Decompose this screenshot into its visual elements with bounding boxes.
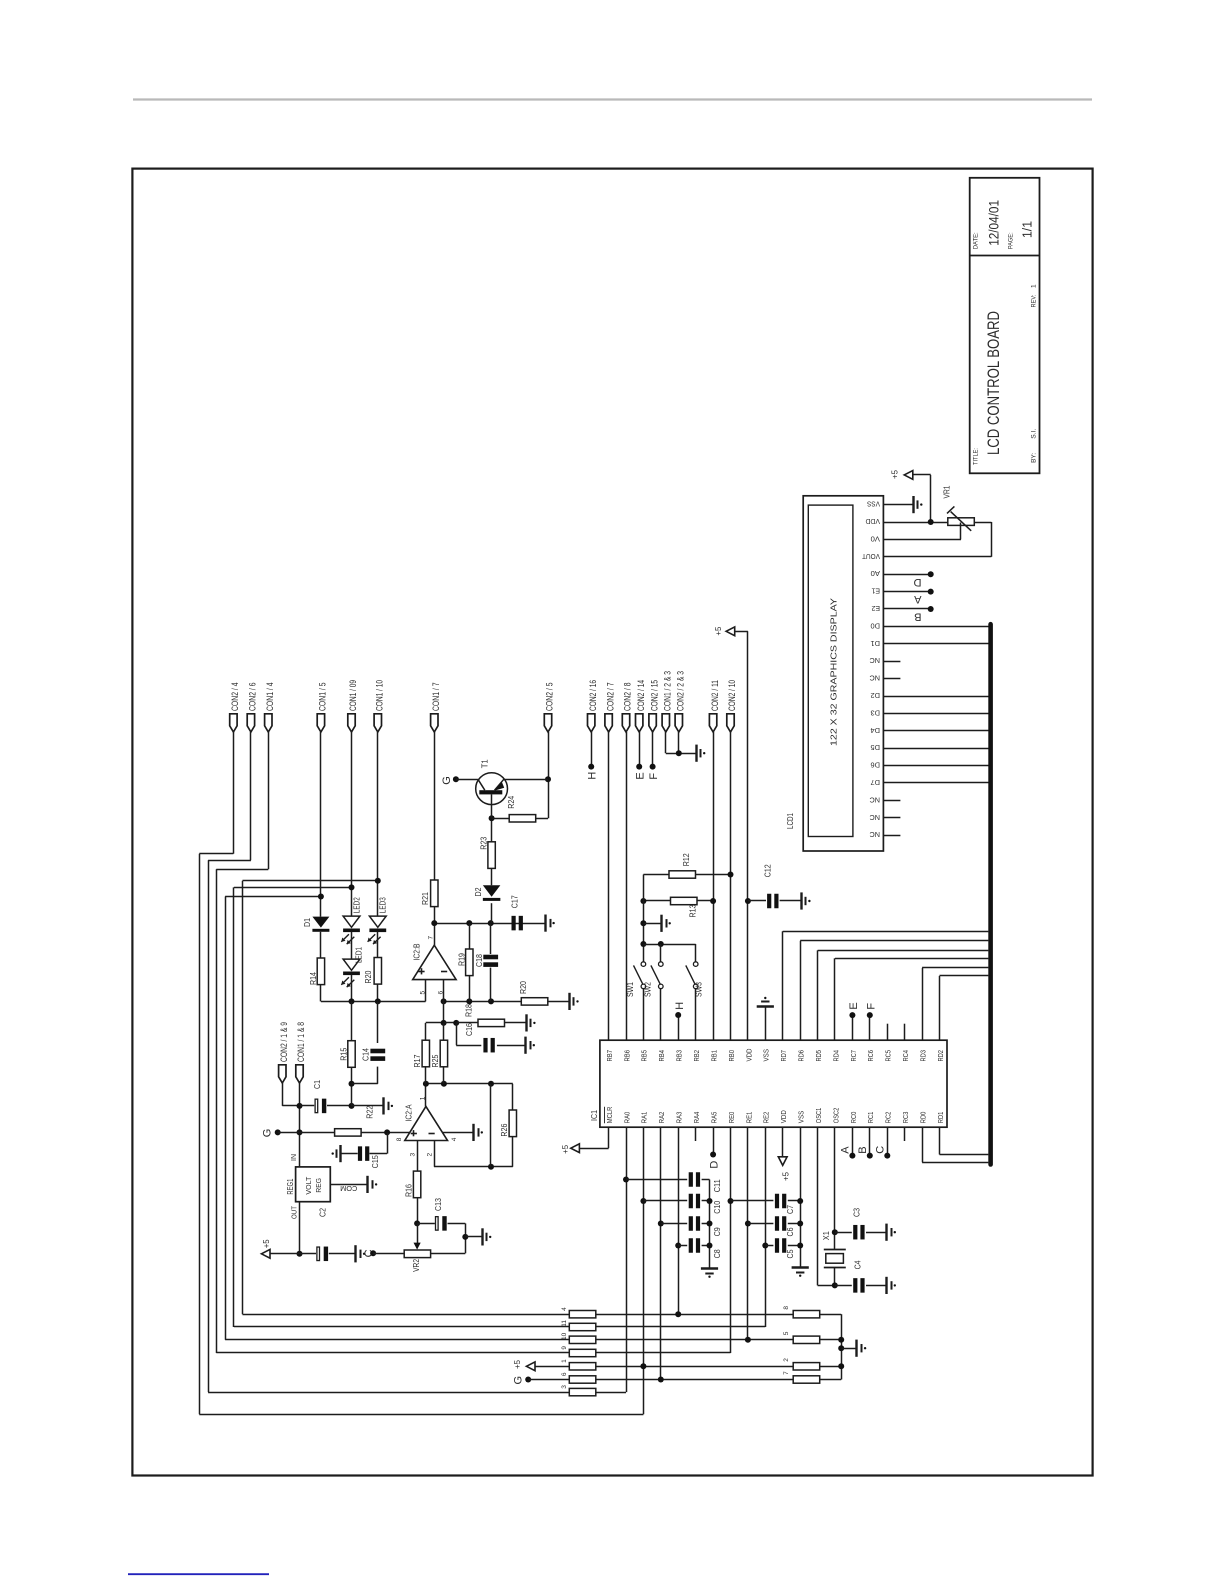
svg-text:D: D [914,576,922,588]
svg-text:C4: C4 [853,1260,862,1269]
RC4 stub [904,1024,906,1040]
LCD display window [808,505,853,836]
svg-text:C: C [874,1146,886,1154]
capacitor C14 [377,1001,379,1043]
svg-text:CON2 / 8: CON2 / 8 [623,683,634,712]
wire base bar to node [491,794,493,818]
wire CON2/1&9 to C1 node [282,1083,284,1106]
wire CON1/1&8 down to REG1 [299,1083,301,1167]
svg-text:IC1: IC1 [590,1110,599,1121]
svg-text:4: 4 [451,1137,458,1141]
svg-text:G: G [513,1376,525,1385]
wire LCD E2 stub, net B [883,608,930,610]
svg-text:R14: R14 [309,972,318,985]
wire RD5 to bus [817,950,819,1040]
svg-text:D3: D3 [871,708,881,717]
svg-text:CON2 / 15: CON2 / 15 [649,680,660,711]
REG1 COM to ground [330,1184,368,1186]
ground (up) at IC1 top VSS [765,1006,767,1040]
svg-text:C12: C12 [764,864,773,877]
resistor R14 [317,958,324,985]
connector CON2 / 16 [588,714,595,732]
wire LCD data pin to bus [883,730,990,732]
wire row R3 to RA0 [596,1392,626,1394]
svg-text:C17: C17 [510,895,519,908]
wire RE1 down [747,1127,749,1340]
wire OSC2 down to crystal top [834,1127,836,1250]
svg-text:VOLT: VOLT [304,1176,313,1194]
svg-text:E: E [635,772,647,779]
wire LCD V0 to VR1 wiper [883,539,961,541]
wire CON2/14 to net E dot [639,732,641,767]
wire CON2/11 to IC1 RB1 [713,732,715,1040]
potentiometer VR2 [404,1250,430,1258]
wire R14 to summing line [320,985,322,1002]
svg-text:SW1: SW1 [626,982,635,997]
svg-text:RB2: RB2 [692,1050,701,1062]
svg-text:CON1 / 4: CON1 / 4 [265,683,276,712]
wire G to T1 [456,779,478,781]
diode D2 [491,903,493,923]
wire REG1 OUT down [299,1202,301,1254]
net C dot at RC2 [887,1127,889,1155]
svg-text:RC0: RC0 [849,1112,858,1124]
svg-text:VDD: VDD [865,517,880,526]
wire LCD data pin to bus [883,626,990,628]
svg-text:R12: R12 [682,853,691,866]
svg-text:LED1: LED1 [354,947,363,963]
wire CON2/15 to net F dot [652,732,654,767]
resistor R26 feedback [512,1084,514,1110]
output line py=923 [434,923,545,925]
svg-text:NC: NC [869,674,880,683]
svg-text:E1: E1 [872,587,881,596]
svg-text:IN: IN [291,1154,298,1161]
svg-text:4: 4 [561,1307,568,1311]
net A dot at RC0 [852,1127,854,1155]
svg-text:D7: D7 [871,778,881,787]
wire R24 to CON2/5 line [536,818,548,820]
wire G line to IC2:A pin8 [278,1132,335,1134]
svg-text:G: G [262,1129,274,1138]
svg-text:R24: R24 [507,795,516,808]
wire CON1/2&3 + CON2/2&3 to ground [665,732,667,753]
wire C1 node to ground [349,1103,355,1109]
power +5 arrow at LCD VDD [904,471,913,480]
svg-text:RA4: RA4 [692,1112,701,1124]
connector CON2 / 11 [709,714,716,732]
svg-text:SW2: SW2 [644,982,653,997]
wire C dot to VR2 [373,1253,404,1255]
wire LED2 to LED1 [351,932,353,959]
resistor R23 [488,842,495,869]
svg-text:BY:: BY: [1031,453,1038,463]
svg-text:E: E [848,1002,860,1009]
svg-text:R19: R19 [457,953,466,966]
svg-text:LCD1: LCD1 [786,813,795,829]
resistor R7 (row to rail) [793,1376,820,1383]
svg-text:RA5: RA5 [709,1112,718,1124]
wire VR2 right to ground node [431,1253,466,1255]
svg-text:D6: D6 [871,761,881,770]
resistor R8 (row to rail) [793,1311,820,1318]
title block [970,178,1040,474]
connector CON2 / 15 [649,714,656,732]
svg-text:RB6: RB6 [622,1050,631,1062]
svg-text:RC4: RC4 [901,1050,910,1062]
svg-text:C16: C16 [465,1023,474,1036]
wire RD2 to bus [939,976,941,1040]
svg-text:R26: R26 [500,1123,509,1136]
svg-text:RA2: RA2 [657,1112,666,1124]
svg-text:D1: D1 [871,639,881,648]
svg-text:CON1 / 2 & 3: CON1 / 2 & 3 [663,671,674,711]
resistor R6 (row) [569,1376,596,1383]
svg-text:R22: R22 [365,1105,374,1118]
net H dot at RB3 [678,1015,680,1040]
wiper arrow into VR2 [417,1223,419,1244]
svg-text:X1: X1 [822,1231,831,1240]
wire CON1/7 to R21 [434,732,436,880]
svg-text:RB5: RB5 [640,1050,649,1062]
svg-text:RB4: RB4 [657,1050,666,1062]
svg-text:8: 8 [783,1306,790,1310]
svg-text:D5: D5 [871,743,881,752]
svg-text:RA1: RA1 [640,1112,649,1124]
RA4 stub [695,1127,697,1141]
svg-text:+5: +5 [513,1359,522,1369]
resistor R5 (row to rail) [793,1336,820,1343]
wire LCD E1 stub, net A [883,591,930,593]
ground at C8-C11 rail [701,1267,718,1269]
wire LCD VSS pin to ground [883,504,913,506]
svg-text:REG: REG [314,1178,323,1193]
wire R21 to output node [434,907,436,924]
wire RA2 down [660,1127,662,1379]
wire row R11 to RE2 [596,1326,766,1328]
connector CON2 / 10 [727,714,734,732]
ground tap on RB5 line [640,920,646,926]
svg-text:RC7: RC7 [849,1050,858,1062]
svg-text:RD5: RD5 [814,1050,823,1062]
svg-text:+5: +5 [561,1144,570,1154]
resistor R16 [413,1171,420,1198]
svg-text:NC: NC [869,795,880,804]
wire RE2 down [765,1127,767,1327]
svg-text:C14: C14 [361,1048,370,1061]
net B dot at RC1 [869,1127,871,1155]
wire LCD data pin to bus [883,782,990,784]
wire RD0 to bus [922,1127,924,1162]
svg-text:1: 1 [1031,284,1038,288]
svg-text:H: H [587,772,599,780]
wire RA5 to net D dot [713,1127,715,1154]
svg-text:RA0: RA0 [622,1112,631,1124]
svg-text:V0: V0 [871,534,881,543]
svg-text:CON1 / 10: CON1 / 10 [375,680,386,711]
wire RD1 to bus [939,1127,941,1154]
svg-text:C18: C18 [475,954,484,967]
svg-text:C13: C13 [434,1198,443,1211]
wire LED3 to R20 [377,932,379,958]
wire CON1/4 to row R9 [268,732,270,869]
net E dot at RC7 [852,1015,854,1040]
wire IC2:B output to node [434,923,436,945]
svg-text:CON2 / 14: CON2 / 14 [636,680,647,711]
svg-text:R16: R16 [404,1184,413,1197]
LED LED2 [343,916,360,927]
capacitor C4 [835,1285,852,1287]
svg-text:C11: C11 [713,1179,722,1192]
capacitor C2 to ground [300,1253,317,1255]
wire CON1/10 to LED3 and row R4 [377,732,379,916]
svg-text:VSS: VSS [797,1111,806,1124]
wire LCD data pin to bus [883,643,990,645]
svg-text:RB7: RB7 [605,1050,614,1062]
capacitor C15 to ground [387,1132,389,1153]
svg-text:CON2 / 5: CON2 / 5 [545,683,556,712]
capacitor C6 [745,1221,751,1227]
svg-text:RE2: RE2 [762,1112,771,1124]
resistor R19 [469,923,471,949]
junction dot VDD/+5 [928,519,934,525]
capacitor C16 to ground [456,1023,458,1045]
svg-text:IC2:B: IC2:B [412,944,421,961]
wire pin3 to R16 [417,1141,419,1172]
wire feedback bottom to pin2 [434,1166,513,1168]
wire IC2:A output up [425,1084,427,1107]
RC5 stub [887,1024,889,1040]
svg-text:NC: NC [869,830,880,839]
svg-text:RC6: RC6 [866,1050,875,1062]
svg-text:NC: NC [869,813,880,822]
svg-text:RA3: RA3 [675,1112,684,1124]
svg-text:F: F [648,773,660,780]
wire R23 to base node [491,818,493,842]
wire capacitor rail to ground [709,1180,711,1269]
wire IC1 VSS rail to ground [800,1127,802,1267]
svg-text:RB3: RB3 [675,1050,684,1062]
svg-text:OSC1: OSC1 [814,1108,823,1124]
svg-text:TITLE:: TITLE: [973,448,980,465]
svg-text:CON1 / 5: CON1 / 5 [318,683,329,712]
svg-text:3: 3 [561,1385,568,1389]
svg-text:1/1: 1/1 [1020,221,1035,238]
svg-text:PAGE:: PAGE: [1008,232,1015,249]
wire op-amp non-inverting summing line [321,1001,426,1003]
transistor T1 [476,773,508,805]
svg-text:H: H [674,1002,686,1010]
LCD NC pin stub [883,678,900,680]
svg-text:VDD: VDD [744,1048,753,1061]
wire RB5 switch line [643,875,645,962]
capacitor C11 [623,1177,629,1183]
capacitor C10 [640,1198,646,1204]
power +5 arrow at MCLR [571,1144,580,1153]
svg-text:B: B [914,611,921,623]
ground at LCD VSS [912,496,914,513]
svg-text:REG1: REG1 [286,1178,295,1194]
svg-text:D1: D1 [303,918,312,927]
svg-text:LED2: LED2 [352,897,361,913]
net F dot at RC6 [869,1015,871,1040]
resistor R3 (row) [569,1388,596,1395]
svg-text:C3: C3 [852,1208,861,1217]
data bus (thick) [988,624,993,1164]
svg-text:RE1: RE1 [744,1112,753,1124]
svg-text:A: A [914,593,922,605]
wire RA1 down [643,1127,645,1414]
resistor R24 [492,818,510,820]
svg-text:E2: E2 [872,604,881,613]
wire R20 to summing line [377,984,379,1001]
wire LCD data pin to bus [883,765,990,767]
ground at C4 [885,1277,887,1294]
svg-text:VSS: VSS [867,500,880,509]
svg-text:NC: NC [869,656,880,665]
crystal X1 [824,1249,846,1251]
wire T1 collector to CON2/5 line [504,779,548,781]
ground at CON 2&3 [695,745,697,762]
svg-text:+5: +5 [891,469,900,479]
ground at C17 line [544,915,546,932]
svg-text:OSC2: OSC2 [831,1108,840,1124]
connector CON1 / 2 & 3 [662,714,669,732]
power +5 arrow at IC1 VDD (down) [782,1127,784,1157]
svg-text:C5: C5 [786,1249,795,1258]
connector CON1 / 4 [265,714,272,732]
svg-text:CON1 / 7: CON1 / 7 [431,683,442,712]
switch SW2 [659,962,664,967]
svg-text:2: 2 [426,1153,433,1157]
wire row R10 to RE1 [596,1339,793,1341]
wire CON2/10 to IC1 RB0 [730,732,732,1040]
svg-text:VR2: VR2 [412,1258,421,1271]
connector CON2 / 5 [544,714,551,732]
LCD NC pin stub [883,800,900,802]
svg-text:6: 6 [561,1372,568,1376]
svg-text:DATE:: DATE: [973,232,980,249]
capacitor C18 [490,923,492,954]
svg-text:12/04/01: 12/04/01 [986,200,1002,246]
svg-text:C8: C8 [713,1249,722,1258]
svg-text:CON2 / 10: CON2 / 10 [727,680,738,711]
svg-text:7: 7 [427,936,434,940]
svg-text:R15: R15 [339,1047,348,1060]
wire LCD data pin to bus [883,748,990,750]
connector CON1 / 10 [374,714,381,732]
resistor R25 [443,1023,445,1040]
wire MCLR to +5 [608,1127,610,1148]
svg-text:CON2 / 6: CON2 / 6 [248,683,259,712]
resistor R4 (row) [569,1311,596,1318]
capacitor C1 [300,1105,315,1107]
wire RD7 to bus [782,931,784,1040]
svg-text:F: F [865,1003,877,1010]
resistor R1 (row) [569,1363,596,1370]
wire CON1/09 to LED2 and row R11 [351,732,353,916]
wire +5 to IC1 VDD [735,631,748,633]
connector CON2 / 4 [230,714,237,732]
wire VR1 to VOUT [974,522,991,524]
svg-text:R13: R13 [689,904,698,917]
svg-text:C9: C9 [713,1227,722,1236]
wire row R9 to RE0 [596,1352,731,1354]
wire CON2/8 to IC1 RB6 [626,732,628,1040]
wire LCD VDD pin to VR1 [883,522,948,524]
ground at VSS rail [792,1266,809,1268]
svg-text:10: 10 [561,1332,568,1340]
pull resistor rail [841,1314,843,1379]
wire RE0 down [730,1127,732,1353]
svg-text:R25: R25 [431,1054,440,1067]
svg-text:RC3: RC3 [901,1112,910,1124]
connector CON1 / 5 [317,714,324,732]
svg-text:RE0: RE0 [727,1112,736,1124]
diode D1 [312,917,329,928]
svg-text:CON2 / 7: CON2 / 7 [605,683,616,712]
row +5 feed [526,1362,535,1371]
svg-text:C1: C1 [313,1080,322,1089]
connector CON2 / 8 [622,714,629,732]
wire SW2 top line [640,941,646,947]
svg-text:S.I.: S.I. [1031,429,1038,439]
svg-text:CON1 / 1 & 8: CON1 / 1 & 8 [296,1022,306,1062]
connector CON2 / 7 [605,714,612,732]
svg-text:2: 2 [783,1358,790,1362]
wire row R6 to RA2 [596,1379,793,1381]
connector CON2/1&9 [279,1065,286,1083]
svg-text:COM: COM [340,1184,357,1193]
wire LCD data pin to bus [883,713,990,715]
svg-text:11: 11 [561,1320,568,1327]
svg-text:CON2 / 2 & 3: CON2 / 2 & 3 [676,671,687,711]
svg-text:G: G [441,776,453,785]
capacitor C9 [658,1221,664,1227]
wire RD4 to bus [834,958,836,1040]
op-amp IC2:A [405,1106,448,1140]
svg-text:5: 5 [783,1331,790,1335]
wire CON2/4 to RA1 bottom loop [233,732,235,854]
svg-text:LED3: LED3 [379,897,388,913]
svg-text:RD3: RD3 [918,1050,927,1062]
capacitor C5 [762,1243,768,1249]
junction base node [489,815,495,821]
IC IC1 microcontroller outline [600,1040,947,1127]
svg-text:D0: D0 [871,621,881,630]
wire D1 to R14 [320,932,322,958]
svg-text:C7: C7 [786,1205,795,1214]
wire RD6 to bus [800,941,802,1040]
output feedback line [426,1083,513,1085]
svg-text:RD1: RD1 [936,1112,945,1124]
power +5 arrow at REG1 output [270,1253,300,1255]
svg-text:VSS: VSS [762,1049,771,1062]
resistor R18 to ground [456,1022,478,1024]
svg-text:CON2 / 11: CON2 / 11 [710,680,721,711]
wire crystal bottom to OSC1 line [834,1268,836,1286]
svg-text:VR1: VR1 [942,485,951,498]
capacitor C8 [675,1243,681,1249]
svg-text:CON2 / 4: CON2 / 4 [230,683,241,712]
resistor R13 [643,900,670,902]
svg-text:MCLR: MCLR [605,1106,614,1123]
svg-text:RD6: RD6 [797,1050,806,1062]
wire LCD A0 stub, net D [883,574,930,576]
svg-text:LCD CONTROL BOARD: LCD CONTROL BOARD [985,311,1003,455]
connector CON1/1&8 [296,1065,303,1083]
resistor R17 [425,1023,427,1040]
